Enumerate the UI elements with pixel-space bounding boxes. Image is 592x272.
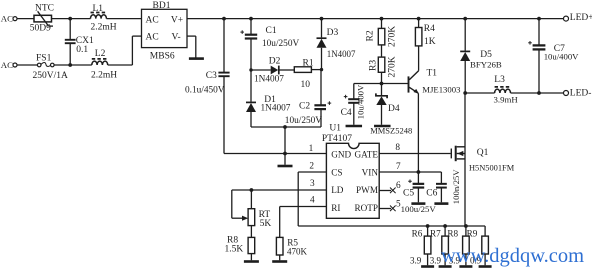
svg-text:100u/25V: 100u/25V [401,204,437,214]
svg-text:LED-: LED- [570,89,592,99]
svg-text:D3: D3 [327,28,339,38]
svg-text:MBS6: MBS6 [150,52,175,62]
svg-text:3.9: 3.9 [430,255,442,265]
svg-text:NTC: NTC [35,4,54,14]
svg-text:10u/250V: 10u/250V [285,116,322,126]
svg-text:4: 4 [310,196,315,206]
svg-text:R7: R7 [430,229,441,239]
svg-text:LD: LD [331,185,344,195]
svg-text:10u/400V: 10u/400V [544,51,579,61]
svg-text:GATE: GATE [355,150,379,160]
svg-text:2.2mH: 2.2mH [91,23,117,33]
svg-text:C6: C6 [426,189,437,199]
svg-text:50D9: 50D9 [30,24,51,34]
svg-text:100n/25V: 100n/25V [451,169,461,204]
svg-text:AC: AC [1,60,13,70]
svg-text:2: 2 [309,162,314,172]
svg-text:RI: RI [331,203,340,213]
svg-text:MJE13003: MJE13003 [422,84,460,94]
svg-text:PWM: PWM [356,185,378,195]
svg-text:1.5K: 1.5K [225,244,244,254]
svg-text:LED+: LED+ [570,13,592,23]
svg-text:U1: U1 [329,123,341,133]
svg-text:7: 7 [396,162,401,172]
svg-text:1N4007: 1N4007 [327,49,356,59]
svg-text:C5: C5 [403,189,414,199]
svg-text:BD1: BD1 [153,1,171,11]
svg-text:0.1: 0.1 [76,45,88,55]
svg-text:1N4007: 1N4007 [261,104,291,114]
svg-text:R2: R2 [365,30,375,41]
svg-text:270K: 270K [387,26,397,47]
svg-text:PT4107: PT4107 [322,134,352,144]
svg-text:6: 6 [396,181,401,191]
svg-text:C2: C2 [299,102,310,112]
svg-text:1K: 1K [424,37,436,47]
svg-text:10u/400V: 10u/400V [356,84,366,119]
svg-text:V+: V+ [171,15,183,25]
svg-text:R1: R1 [303,58,314,68]
svg-text:R3: R3 [368,60,378,71]
svg-text:R6: R6 [412,229,423,239]
svg-text:D2: D2 [269,56,281,66]
svg-text:L2: L2 [95,49,106,59]
svg-text:C3: C3 [206,71,217,81]
svg-text:3: 3 [310,179,315,189]
svg-text:R4: R4 [424,24,435,34]
svg-text:BFY26B: BFY26B [470,59,502,69]
svg-text:1N4007: 1N4007 [254,75,284,85]
svg-text:FS1: FS1 [36,53,52,63]
svg-text:ROTP: ROTP [355,203,379,213]
svg-text:R8: R8 [447,229,458,239]
svg-text:3.9: 3.9 [410,255,422,265]
svg-text:C1: C1 [266,26,277,36]
svg-text:GND: GND [331,150,351,160]
svg-text:V-: V- [172,32,181,42]
svg-text:MMSZ5248: MMSZ5248 [370,125,412,135]
svg-text:L3: L3 [494,75,505,85]
svg-text:AC: AC [1,14,13,24]
svg-text:AC: AC [146,16,159,26]
svg-text:H5N5001FM: H5N5001FM [469,164,515,173]
svg-text:3.9mH: 3.9mH [494,95,519,105]
svg-text:10u/250V: 10u/250V [262,39,299,49]
svg-text:250V/1A: 250V/1A [33,71,69,81]
svg-text:R9: R9 [467,229,478,239]
svg-text:10: 10 [301,80,311,90]
svg-text:VIN: VIN [362,168,379,178]
svg-text:1: 1 [309,144,314,154]
svg-text:270K: 270K [388,56,398,77]
svg-text:L1: L1 [93,4,104,14]
svg-text:Q1: Q1 [477,148,489,158]
svg-text:D4: D4 [388,104,400,114]
svg-text:5K: 5K [260,219,272,229]
svg-text:2.2mH: 2.2mH [91,71,117,81]
svg-text:8: 8 [395,143,400,153]
svg-text:C4: C4 [341,108,352,118]
svg-text:0.1u/450V: 0.1u/450V [185,85,225,95]
svg-text:CS: CS [331,168,342,178]
svg-text:AC: AC [146,33,159,43]
svg-text:www.dgdqw.com: www.dgdqw.com [441,245,584,267]
svg-text:470K: 470K [287,246,308,256]
svg-text:T1: T1 [427,68,438,78]
